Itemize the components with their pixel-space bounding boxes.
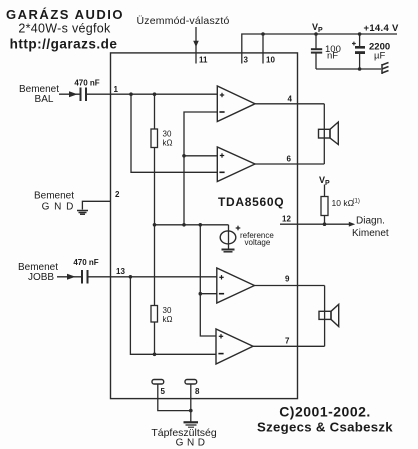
wire pin13 to op4 inverting	[130, 277, 216, 355]
svg-text:nF: nF	[327, 51, 338, 62]
svg-text:470 nF: 470 nF	[73, 258, 98, 267]
svg-text:10 kΩ: 10 kΩ	[332, 198, 354, 208]
svg-text:G N D: G N D	[176, 438, 206, 449]
resistor 30k bottom	[154, 225, 156, 306]
svg-text:10: 10	[266, 56, 275, 65]
pin 8 tab	[185, 380, 197, 385]
wire op4 output pin 7	[253, 345, 325, 347]
svg-text:(1): (1)	[353, 199, 360, 205]
resistor 10k pullup	[324, 185, 326, 197]
svg-text:6: 6	[287, 155, 292, 164]
wire mode-select to pin 11 with arrow	[195, 27, 197, 64]
svg-text:µF: µF	[374, 51, 385, 62]
wire cap to pin13 and op3 +	[88, 276, 217, 278]
ground pin2	[77, 211, 88, 215]
wire pin 2	[82, 201, 110, 209]
svg-text:C)2001-2002.: C)2001-2002.	[279, 404, 371, 420]
wire caps bottom	[316, 68, 381, 70]
svg-text:GARÁZS AUDIO: GARÁZS AUDIO	[6, 7, 124, 22]
svg-text:BAL: BAL	[35, 94, 54, 105]
svg-text:http://garazs.de: http://garazs.de	[10, 37, 118, 52]
op-amp U4	[216, 329, 253, 364]
svg-text:2: 2	[115, 190, 120, 199]
svg-text:G N D: G N D	[42, 202, 75, 213]
svg-text:11: 11	[199, 56, 208, 65]
svg-text:5: 5	[161, 387, 166, 396]
svg-text:1: 1	[114, 85, 119, 94]
svg-text:JOBB: JOBB	[28, 272, 54, 283]
junction dot pin10 / Vp rail	[261, 32, 265, 36]
wire speaker2 loop	[324, 286, 326, 347]
reference voltage source	[228, 225, 230, 249]
reference line	[155, 224, 229, 226]
wire op1 output pin 4	[255, 103, 324, 105]
wire ref to op3- op4+	[200, 225, 216, 336]
op-amp U3	[217, 268, 255, 303]
svg-text:kΩ: kΩ	[163, 139, 173, 148]
resistor 30k top	[154, 94, 156, 129]
wire pin1 to op2 inverting	[131, 94, 217, 172]
wire to op2 +	[184, 155, 217, 157]
svg-text:12: 12	[282, 215, 291, 224]
input arrow BAL	[59, 93, 81, 95]
wire pin 12 diag	[280, 223, 351, 225]
svg-text:voltage: voltage	[245, 238, 271, 247]
junction dot pin1 b	[153, 92, 157, 96]
ground ref	[222, 250, 235, 252]
svg-text:TDA8560Q: TDA8560Q	[218, 195, 284, 209]
svg-text:Diagn.: Diagn.	[356, 216, 385, 227]
junction dot op2+	[182, 154, 186, 158]
input arrow JOBB	[57, 276, 82, 278]
svg-text:Szegecs & Csabeszk: Szegecs & Csabeszk	[257, 420, 393, 435]
IC outline TDA8560Q	[111, 53, 298, 399]
capacitor 100nF	[311, 34, 322, 69]
svg-text:Bemenet: Bemenet	[34, 191, 74, 202]
pin 5 tab	[152, 380, 164, 385]
capacitor 2200uF electrolytic	[359, 34, 361, 69]
svg-text:+14.4 V: +14.4 V	[364, 23, 399, 34]
wire op3 output pin 9	[255, 285, 325, 287]
svg-text:30: 30	[163, 306, 172, 315]
op-amp U2	[217, 147, 255, 182]
op-amp U1 top left channel	[217, 86, 255, 122]
wire speaker1 loop	[323, 104, 325, 164]
svg-text:kΩ: kΩ	[163, 315, 173, 324]
wire 30k to ref line	[154, 148, 156, 225]
pin 10 stub	[262, 34, 264, 64]
svg-text:Kimenet: Kimenet	[352, 228, 389, 239]
svg-text:13: 13	[116, 267, 125, 276]
svg-text:7: 7	[285, 337, 290, 346]
svg-text:8: 8	[195, 387, 200, 396]
svg-text:4: 4	[288, 95, 293, 104]
ground supply	[184, 422, 199, 427]
svg-text:9: 9	[285, 275, 290, 284]
svg-text:3: 3	[244, 56, 249, 65]
speaker LS1	[319, 129, 331, 138]
svg-text:Üzemmód-választó: Üzemmód-választó	[136, 15, 229, 27]
svg-text:2*40W-s végfok: 2*40W-s végfok	[18, 22, 111, 36]
wire op1 inverting link	[184, 112, 217, 225]
svg-text:470 nF: 470 nF	[74, 79, 99, 88]
wire op2 output pin 6	[255, 163, 324, 165]
wire cap to pin1 and op1 +	[86, 93, 217, 95]
chassis ground top right	[382, 63, 389, 75]
junction dot pin1 a	[129, 92, 133, 96]
speaker LS2	[319, 311, 331, 319]
svg-text:30: 30	[163, 130, 172, 139]
pin 3 stub and wire up	[242, 34, 397, 64]
